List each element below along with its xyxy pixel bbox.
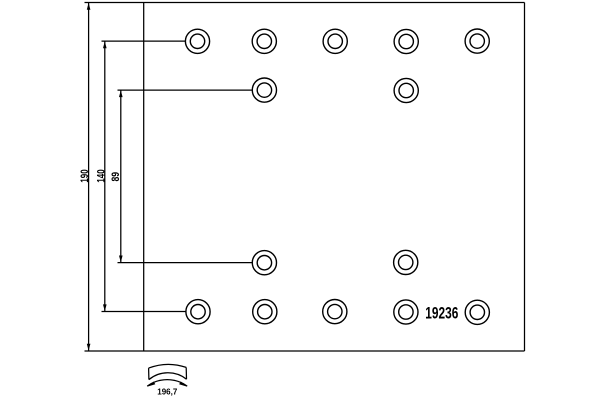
- part outline top edge: [85, 2, 525, 4]
- svg-text:196,7: 196,7: [157, 386, 177, 396]
- arrow dim89 bottom: [119, 256, 123, 263]
- arrow dim140 top: [103, 41, 107, 48]
- svg-text:190: 190: [79, 169, 91, 182]
- leader row2: [118, 89, 253, 91]
- hole r3c4: [394, 250, 418, 274]
- hole r2c2: [252, 78, 276, 102]
- arrow dim190 bottom: [87, 344, 91, 351]
- arrow dim140 bottom: [103, 304, 107, 311]
- hole r1c4: [394, 29, 418, 53]
- dimension 140 line: [104, 41, 106, 311]
- leader row1: [102, 40, 186, 42]
- part outline left edge: [143, 3, 145, 352]
- part outline right edge: [524, 3, 526, 352]
- hole r1c5: [465, 29, 489, 53]
- leader row3: [118, 262, 253, 264]
- dimension arc 196,7: [147, 380, 187, 387]
- lining section left end: [148, 368, 150, 380]
- dimension 89 line: [120, 90, 122, 263]
- hole r4c1: [186, 300, 210, 324]
- hole r1c3: [323, 29, 347, 53]
- hole r4c5: [465, 300, 489, 324]
- arc arrow right: [179, 382, 187, 387]
- hole r4c3: [323, 300, 347, 324]
- dimension 190 line: [88, 3, 90, 351]
- svg-text:19236: 19236: [425, 305, 458, 323]
- arrow dim190 top: [87, 3, 91, 10]
- arc arrow left: [147, 382, 155, 387]
- leader row4: [102, 311, 186, 313]
- hole r1c1: [185, 29, 209, 53]
- hole r3c2: [252, 251, 276, 275]
- part outline bottom edge: [85, 350, 525, 352]
- hole r4c2: [253, 300, 277, 324]
- arrow dim89 top: [119, 90, 123, 97]
- lining section outer arc: [149, 364, 187, 368]
- svg-text:89: 89: [110, 172, 122, 182]
- hole r4c4: [394, 300, 418, 324]
- hole r2c4: [394, 78, 418, 102]
- svg-text:140: 140: [96, 169, 108, 182]
- lining section right end: [185, 367, 187, 379]
- hole r1c2: [252, 29, 276, 53]
- lining section inner arc: [149, 373, 187, 380]
